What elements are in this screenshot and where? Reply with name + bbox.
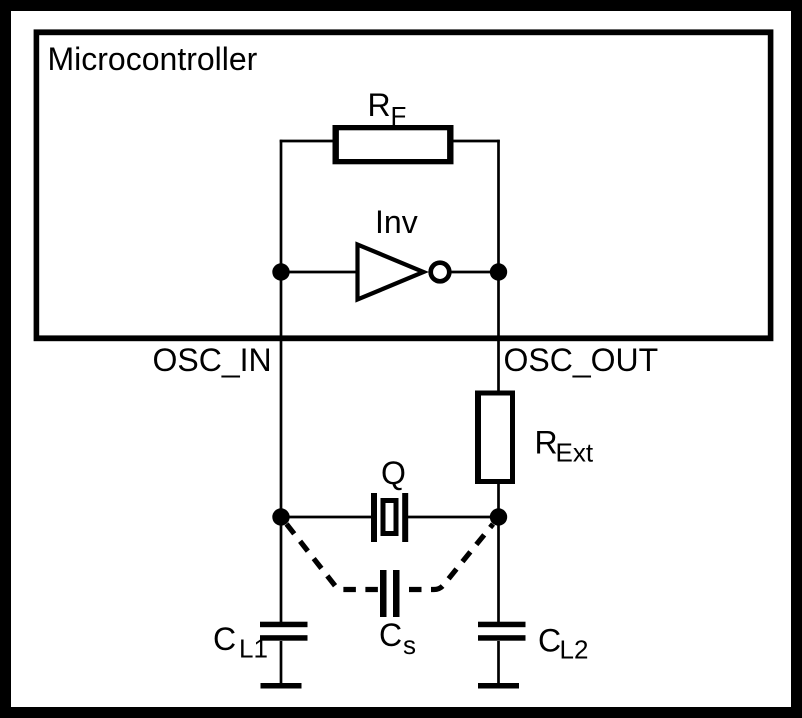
wire (stray capacitance dashed left) (287, 524, 381, 590)
svg-text:R: R (368, 87, 391, 123)
capacitor C_L2 (478, 622, 526, 641)
wire (crystal right lead) (407, 516, 499, 519)
svg-text:Ext: Ext (556, 438, 594, 468)
label R_F (368, 87, 407, 131)
ground (right) (478, 683, 519, 689)
svg-text:F: F (391, 101, 407, 131)
wire (C_L2 to ground) (497, 641, 500, 683)
label Inv (375, 204, 418, 240)
wire (crystal left lead) (281, 516, 372, 519)
wire (stray capacitance dashed right) (400, 524, 494, 590)
label R_Ext (535, 425, 594, 468)
capacitor C_L1 (260, 622, 308, 641)
label Q (381, 455, 406, 491)
wire (left vertical rail OSC_IN) (280, 140, 283, 622)
svg-text:Q: Q (381, 455, 406, 491)
svg-text:Microcontroller: Microcontroller (48, 41, 258, 77)
node (junction dot crystal right) (490, 508, 507, 525)
ground (left) (261, 683, 302, 689)
svg-text:OSC_IN: OSC_IN (153, 342, 272, 378)
wire (C_L1 to ground) (280, 641, 283, 683)
label OSC_OUT (504, 342, 659, 378)
svg-text:R: R (535, 425, 558, 461)
svg-text:C: C (213, 621, 236, 657)
node (junction dot crystal left) (272, 508, 289, 525)
svg-text:L2: L2 (560, 635, 589, 665)
label C_s (379, 617, 416, 660)
microcontroller box (34, 29, 774, 341)
node (junction dot OSC_OUT / inverter output) (490, 263, 507, 280)
label OSC_IN (153, 342, 272, 378)
svg-text:L1: L1 (239, 634, 268, 664)
wire (horizontal to R_F left) (280, 140, 335, 143)
label C_L2 (538, 623, 588, 665)
inverter Inv output bubble (431, 263, 450, 282)
svg-text:C: C (379, 617, 402, 653)
svg-text:s: s (403, 630, 416, 660)
svg-text:OSC_OUT: OSC_OUT (504, 342, 659, 378)
crystal Q (371, 493, 408, 542)
wire (inverter input) (281, 271, 358, 274)
wire (inverter output) (448, 271, 499, 274)
wire (horizontal from R_F right) (451, 140, 500, 143)
node (junction dot OSC_IN / inverter input) (272, 263, 289, 280)
resistor R_Ext (475, 391, 515, 485)
capacitor C_s (380, 570, 400, 617)
wire (right vertical rail lower) (497, 482, 500, 622)
resistor R_F (333, 125, 454, 164)
svg-text:C: C (538, 623, 561, 659)
wire (right vertical rail OSC_OUT upper) (497, 140, 500, 392)
label C_L1 (213, 621, 268, 664)
label Microcontroller (48, 41, 258, 77)
inverter Inv (triangle) (358, 245, 424, 300)
svg-text:Inv: Inv (375, 204, 418, 240)
